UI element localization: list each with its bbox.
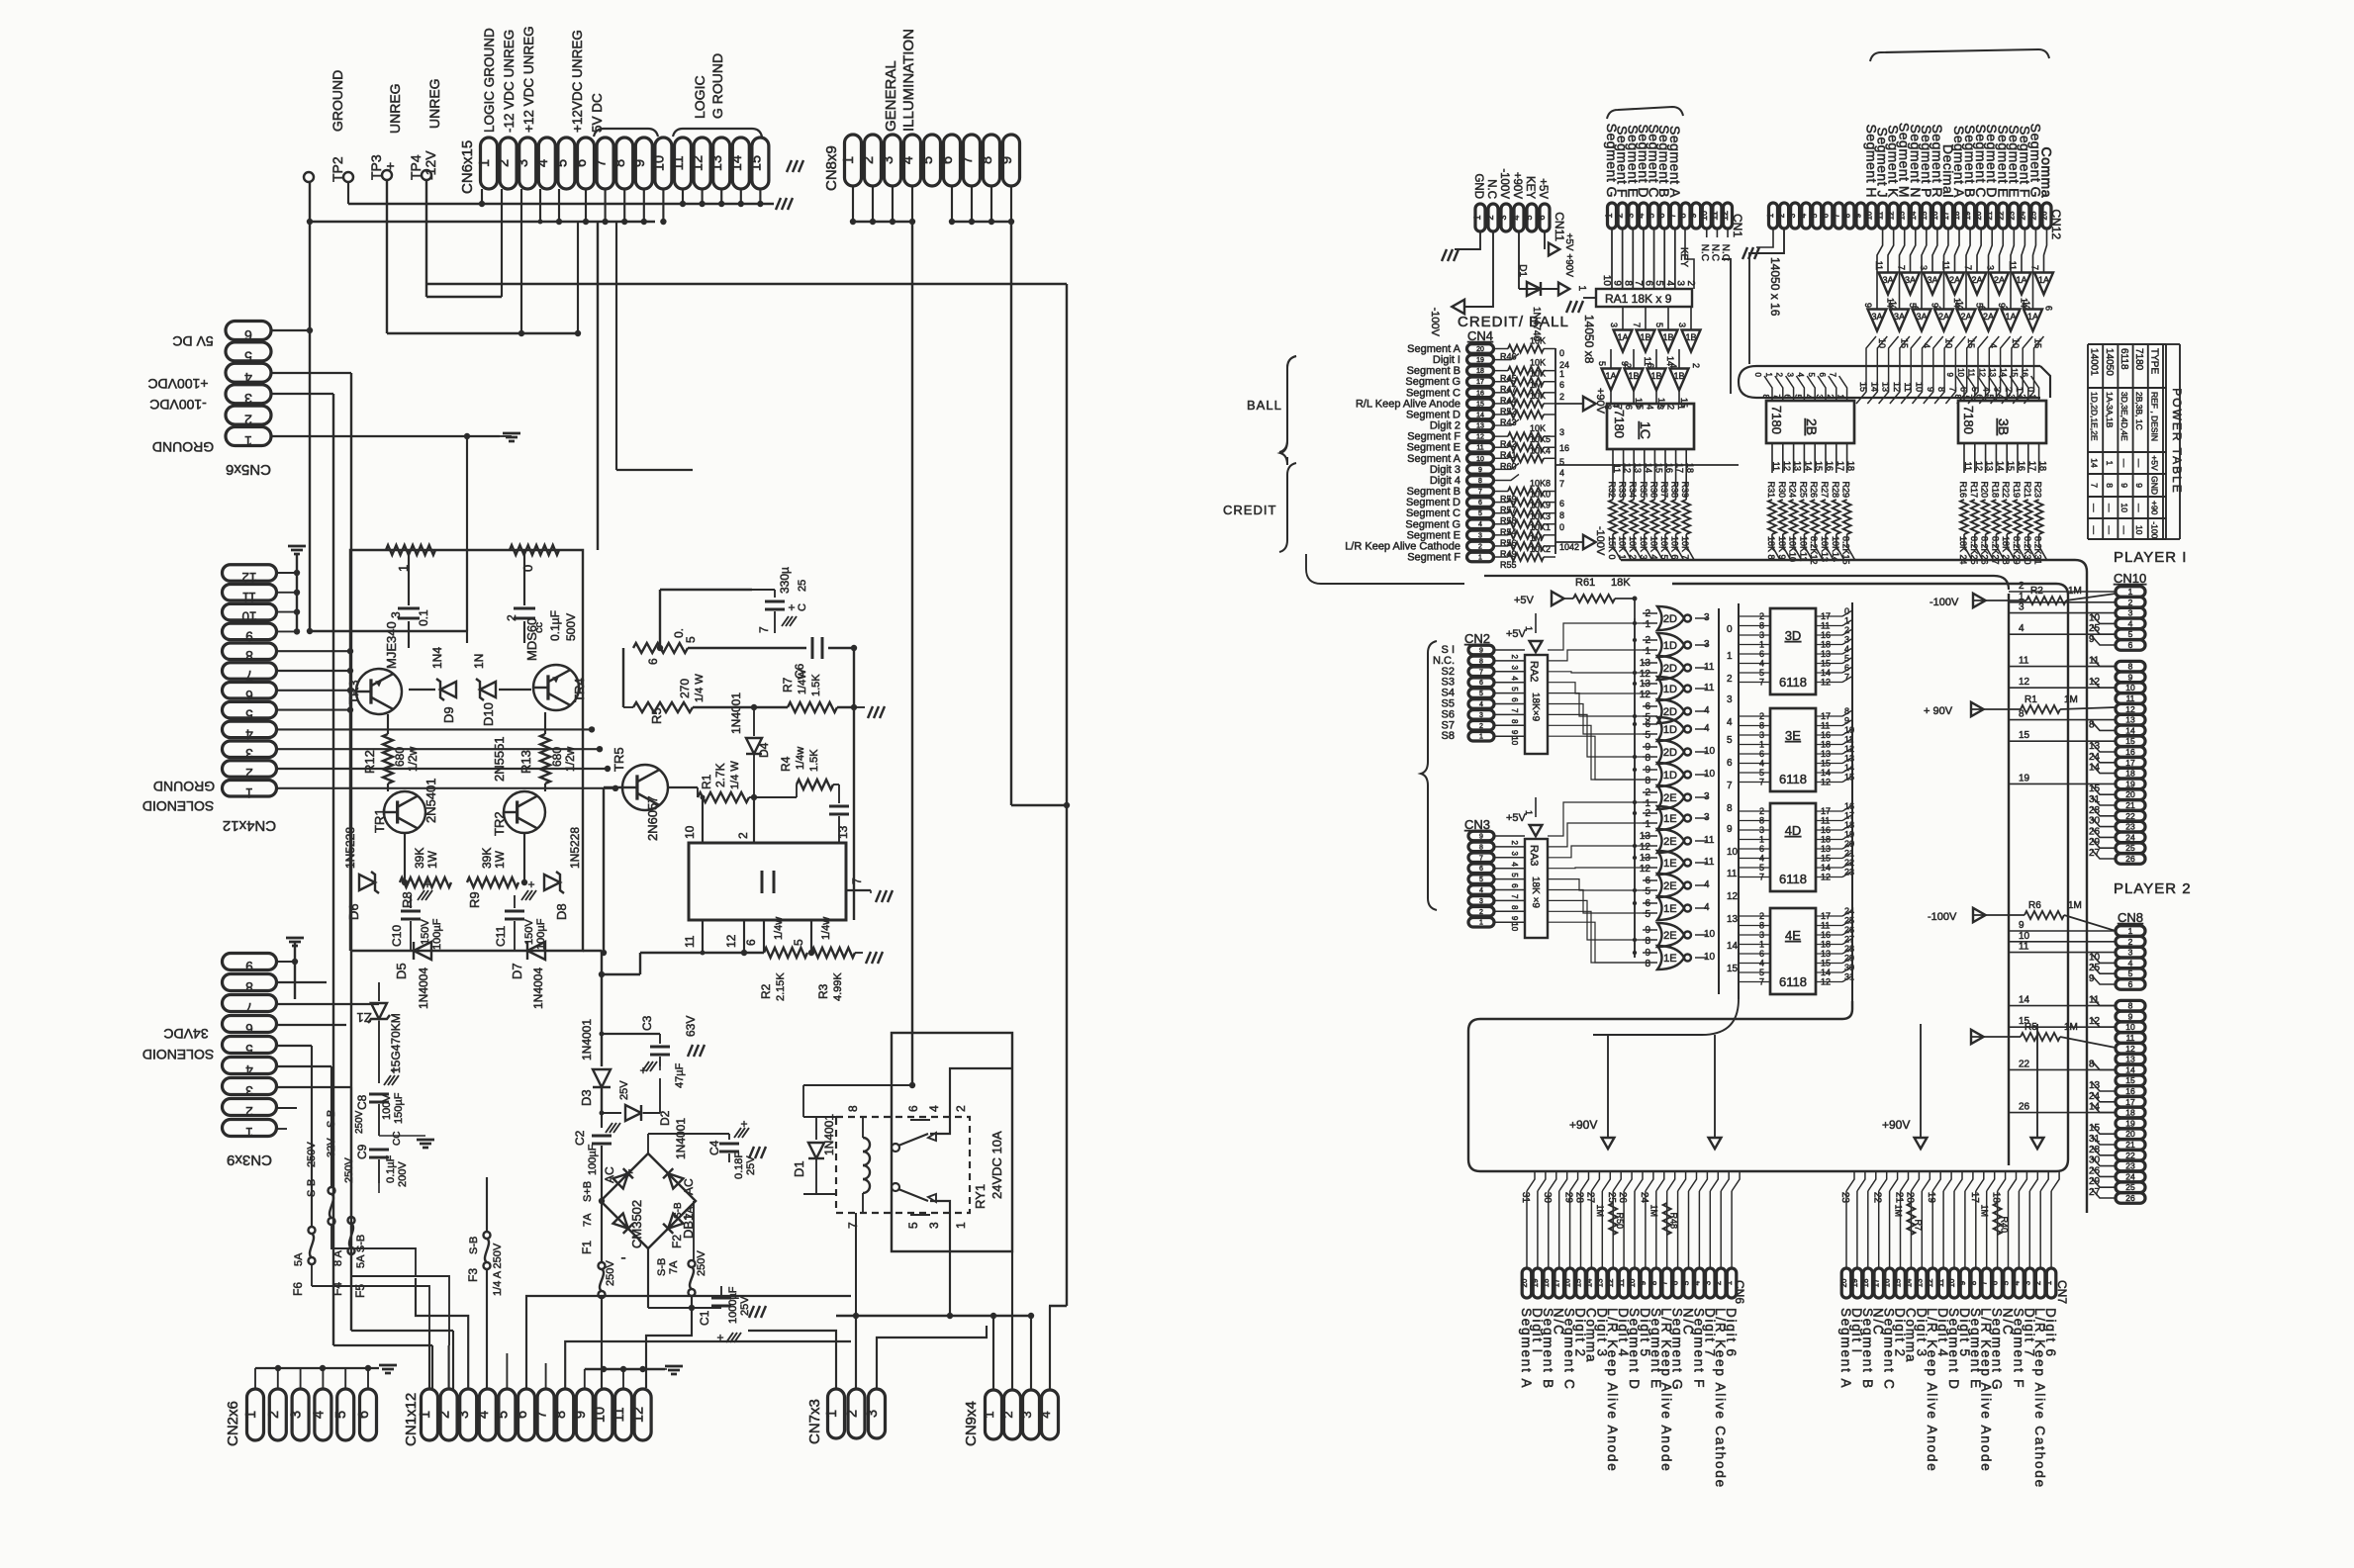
svg-text:15: 15	[2006, 461, 2016, 471]
svg-text:2: 2	[1666, 405, 1676, 410]
wire CN12 pin2 down	[1749, 229, 1784, 364]
svg-text:GROUND: GROUND	[330, 70, 345, 132]
svg-text:3: 3	[1019, 1411, 1034, 1418]
svg-text:2: 2	[954, 1105, 968, 1112]
IC 3B top pins	[1956, 376, 1964, 401]
svg-text:3: 3	[1625, 213, 1635, 218]
connector CN7 bottom	[1841, 1268, 1851, 1298]
svg-text:2B: 2B	[1804, 418, 1820, 435]
svg-text:7: 7	[1772, 395, 1781, 400]
svg-text:4: 4	[311, 1411, 327, 1419]
svg-text:1: 1	[841, 156, 857, 164]
svg-text:1: 1	[1727, 651, 1733, 662]
wire CN8 pins 1-4 bus	[853, 221, 912, 223]
power triangle +5V +90V small	[1544, 231, 1546, 249]
svg-text:16: 16	[1559, 443, 1569, 453]
svg-text:14: 14	[1821, 863, 1831, 873]
svg-text:15: 15	[1858, 382, 1868, 392]
svg-text:+5V: +5V	[1537, 178, 1549, 199]
test point TP4	[422, 170, 431, 180]
svg-text:1N4001: 1N4001	[580, 1019, 594, 1061]
svg-text:14: 14	[1952, 298, 1962, 308]
svg-text:10K: 10K	[1530, 358, 1546, 368]
svg-text:7: 7	[1947, 387, 1957, 392]
svg-text:3: 3	[1919, 265, 1929, 270]
svg-text:5A S-B: 5A S-B	[355, 1235, 367, 1268]
fuse F1 7A 250V	[601, 1201, 603, 1262]
svg-text:11: 11	[1876, 211, 1885, 220]
svg-text:5: 5	[1479, 876, 1483, 883]
svg-text:25: 25	[2125, 843, 2135, 853]
svg-text:14: 14	[1904, 1278, 1913, 1287]
svg-text:8: 8	[1645, 753, 1650, 764]
svg-text:14: 14	[1869, 382, 1879, 392]
svg-text:17: 17	[2125, 758, 2135, 768]
svg-text:3: 3	[1677, 323, 1687, 327]
wire CN6 pin4 pin5 stubs	[539, 189, 541, 222]
zener D9 1N4	[409, 689, 435, 691]
svg-text:25: 25	[2125, 1182, 2135, 1192]
capacitor 0.1 pin3	[408, 550, 410, 605]
svg-text:Z1: Z1	[356, 1010, 371, 1025]
svg-text:19: 19	[1850, 1278, 1859, 1287]
svg-text:7180: 7180	[1961, 406, 1976, 434]
CN4 resistors R46-R55	[1494, 348, 1508, 350]
svg-text:5: 5	[1759, 668, 1764, 678]
svg-text:SOLENOID: SOLENOID	[142, 798, 214, 814]
svg-text:8: 8	[2089, 719, 2095, 730]
svg-text:KEY: KEY	[1678, 247, 1689, 267]
svg-text:4: 4	[1511, 215, 1521, 220]
svg-text:-100VDC: -100VDC	[149, 397, 207, 413]
svg-text:19: 19	[1531, 1278, 1540, 1287]
IC pin 7 with ground	[846, 889, 871, 891]
svg-text:C8: C8	[355, 1094, 369, 1110]
IC pin 13	[834, 842, 839, 844]
svg-text:18: 18	[1821, 835, 1831, 845]
svg-text:2A: 2A	[1983, 312, 1994, 322]
svg-text:5: 5	[792, 939, 805, 946]
svg-text:21: 21	[1894, 1192, 1905, 1204]
svg-text:R19: R19	[2012, 481, 2022, 498]
svg-text:R55: R55	[1500, 560, 1517, 570]
svg-text:1A: 1A	[2016, 275, 2026, 285]
svg-text:10: 10	[1915, 382, 1925, 392]
svg-text:CN1x12: CN1x12	[403, 1393, 420, 1446]
svg-text:17: 17	[1821, 806, 1831, 816]
connector CN1x12	[422, 1389, 438, 1440]
CN8 pin stub numbers	[2092, 954, 2116, 963]
power triangle -100V CN8	[1973, 908, 1986, 922]
svg-text:11: 11	[612, 1407, 627, 1422]
svg-text:1: 1	[1604, 213, 1614, 218]
svg-text:1: 1	[1836, 395, 1845, 400]
svg-text:1A-3A,1B: 1A-3A,1B	[2105, 392, 2115, 428]
svg-text:3A: 3A	[1871, 312, 1882, 322]
svg-text:F6: F6	[291, 1282, 305, 1296]
svg-text:30: 30	[2089, 1155, 2101, 1166]
svg-text:13: 13	[1727, 914, 1739, 925]
CN10 pin stub numbers	[2092, 614, 2116, 623]
svg-text:+: +	[382, 162, 398, 170]
transistor TR4 MDS60	[533, 665, 579, 710]
resistor network RA3 18Kx9	[1525, 839, 1548, 938]
svg-text:4D: 4D	[1785, 823, 1802, 838]
svg-text:500V: 500V	[564, 613, 578, 641]
svg-text:2: 2	[2128, 937, 2133, 947]
svg-text:TP4: TP4	[408, 154, 424, 180]
diode D1 1N4740	[1527, 282, 1541, 296]
svg-text:3: 3	[1815, 395, 1824, 400]
svg-text:CN8x9: CN8x9	[823, 145, 840, 191]
svg-text:1B: 1B	[1662, 332, 1673, 342]
svg-text:11: 11	[1963, 462, 1973, 471]
svg-text:15: 15	[2089, 1123, 2101, 1134]
svg-text:11: 11	[1617, 1278, 1626, 1287]
svg-text:12: 12	[1640, 690, 1651, 700]
svg-text:5: 5	[495, 1411, 511, 1419]
svg-text:+12 VDC UNREG: +12 VDC UNREG	[521, 26, 536, 133]
svg-text:16: 16	[1883, 1278, 1892, 1287]
resistor network RA1 18Kx9	[1596, 289, 1692, 307]
relay contact lower	[892, 1183, 899, 1191]
svg-text:1: 1	[1576, 285, 1587, 291]
svg-text:13: 13	[1821, 649, 1831, 659]
svg-text:1: 1	[1759, 940, 1764, 950]
svg-text:6: 6	[356, 1411, 372, 1419]
svg-text:R7: R7	[781, 677, 795, 692]
svg-text:2: 2	[2018, 395, 2026, 400]
svg-text:TR5: TR5	[612, 747, 626, 772]
svg-text:12: 12	[1720, 211, 1730, 221]
svg-text:5: 5	[1653, 280, 1664, 286]
svg-text:16: 16	[2125, 1086, 2135, 1096]
svg-text:R30: R30	[1777, 481, 1787, 498]
svg-text:15: 15	[2125, 736, 2135, 746]
svg-text:9: 9	[1620, 361, 1630, 366]
svg-text:6: 6	[574, 159, 590, 167]
svg-text:2N5551: 2N5551	[492, 736, 507, 782]
svg-text:9: 9	[632, 159, 648, 167]
svg-text:F1: F1	[580, 1241, 594, 1254]
fuse F5 5A S-B	[348, 1217, 355, 1224]
svg-text:—: —	[2090, 504, 2100, 512]
svg-text:2A: 2A	[1949, 275, 1960, 285]
svg-text:Comma: Comma	[2039, 146, 2055, 198]
svg-text:3: 3	[1510, 851, 1519, 856]
svg-text:20: 20	[2125, 789, 2135, 799]
connector CN11	[1475, 204, 1485, 231]
svg-text:1: 1	[1524, 626, 1534, 631]
svg-text:1M: 1M	[1649, 1204, 1659, 1217]
svg-text:4: 4	[1759, 659, 1764, 669]
svg-text:REF , DESIN: REF , DESIN	[2149, 392, 2159, 441]
svg-text:3: 3	[245, 746, 253, 761]
svg-text:6: 6	[1759, 649, 1764, 659]
svg-text:13: 13	[1595, 1278, 1604, 1287]
svg-text:GND: GND	[1472, 173, 1484, 199]
svg-text:3: 3	[1609, 323, 1619, 327]
svg-text:7: 7	[1727, 781, 1733, 791]
svg-text:1: 1	[477, 159, 493, 167]
svg-text:17: 17	[2027, 461, 2037, 471]
wire x472 down to TP2 horizontal	[466, 436, 468, 631]
svg-text:8: 8	[1510, 719, 1519, 724]
svg-text:10: 10	[592, 1407, 608, 1423]
svg-text:22: 22	[1996, 211, 2005, 220]
svg-text:1N4004: 1N4004	[417, 968, 430, 1009]
connector CN4x12	[223, 565, 277, 582]
svg-text:6: 6	[1510, 883, 1519, 888]
svg-text:D9: D9	[441, 706, 456, 723]
svg-text:14: 14	[2125, 1064, 2135, 1074]
svg-text:250V: 250V	[306, 1142, 318, 1167]
svg-text:16: 16	[2125, 747, 2135, 757]
svg-text:2N6057: 2N6057	[645, 795, 660, 841]
svg-text:7: 7	[1559, 479, 1564, 489]
wire +12 rail x623 down	[615, 222, 617, 470]
svg-text:12: 12	[1782, 461, 1792, 471]
svg-text:4: 4	[2012, 1280, 2021, 1285]
connector CN6x15	[481, 138, 498, 189]
svg-text:100µF: 100µF	[431, 918, 443, 950]
svg-text:5: 5	[1645, 886, 1650, 897]
svg-text:8: 8	[1759, 721, 1764, 731]
earth ground near CN5 pin1	[503, 432, 520, 435]
svg-text:8: 8	[1645, 776, 1650, 786]
wire TP4 to CN6 pin2	[425, 180, 427, 297]
regulator IC box	[689, 843, 846, 920]
svg-text:9: 9	[2019, 920, 2024, 931]
svg-text:2: 2	[497, 159, 513, 167]
svg-text:—: —	[2134, 504, 2144, 512]
svg-text:S-B: S-B	[656, 1258, 668, 1276]
svg-text:8: 8	[1761, 395, 1770, 400]
svg-text:4: 4	[2128, 618, 2133, 628]
svg-text:5: 5	[1524, 215, 1534, 220]
svg-text:1: 1	[1645, 646, 1650, 657]
bracket over CN12 labels	[1870, 49, 2049, 61]
svg-text:8: 8	[1559, 510, 1564, 520]
wire CN1 KEY pin	[1685, 229, 1694, 289]
svg-text:1W: 1W	[493, 850, 507, 869]
svg-text:330µ: 330µ	[778, 567, 792, 594]
svg-text:10: 10	[683, 825, 697, 839]
svg-text:2: 2	[1759, 911, 1764, 921]
svg-text:AC: AC	[682, 1178, 696, 1195]
svg-text:680: 680	[550, 747, 564, 767]
svg-text:1: 1	[245, 785, 253, 800]
svg-text:3: 3	[1674, 280, 1685, 286]
svg-text:2D: 2D	[1663, 663, 1677, 675]
svg-text:4: 4	[476, 1411, 492, 1419]
svg-text:8: 8	[1622, 280, 1633, 286]
svg-text:7: 7	[1479, 669, 1483, 676]
wire CN6 pin1 stub	[481, 189, 483, 204]
svg-text:UNREG: UNREG	[426, 78, 442, 129]
svg-text:9: 9	[1863, 303, 1873, 308]
svg-text:D2: D2	[658, 1110, 672, 1126]
IC 3B bottom pins and resistors R16-R23	[1963, 443, 1965, 473]
svg-text:+: +	[716, 1331, 723, 1344]
svg-text:R23: R23	[2033, 481, 2043, 498]
svg-text:3: 3	[1844, 635, 1849, 645]
resistor R7 1M	[1907, 1203, 1915, 1235]
svg-text:12: 12	[1821, 977, 1831, 987]
svg-text:cc: cc	[533, 622, 545, 634]
svg-text:1: 1	[1725, 1280, 1734, 1285]
svg-text:10: 10	[1510, 736, 1519, 745]
svg-text:18: 18	[1846, 461, 1856, 471]
svg-text:12: 12	[1892, 382, 1902, 392]
svg-text:2: 2	[2004, 387, 2014, 392]
svg-text:1A: 1A	[2005, 312, 2016, 322]
svg-text:1: 1	[1559, 369, 1564, 379]
wire bus y224	[310, 221, 655, 223]
svg-text:18: 18	[1952, 211, 1961, 220]
wire CN5 pin3 rail	[271, 393, 333, 395]
svg-text:4: 4	[1645, 405, 1654, 410]
svg-text:1/2w: 1/2w	[406, 746, 420, 772]
svg-text:13: 13	[836, 825, 850, 839]
svg-text:24: 24	[2125, 1171, 2135, 1181]
svg-text:5: 5	[1844, 654, 1849, 664]
-100V triangle CN4	[1555, 541, 1583, 543]
svg-text:1: 1	[245, 1125, 253, 1140]
IC 2B top pins	[1764, 376, 1772, 401]
svg-text:2: 2	[1714, 1280, 1723, 1285]
svg-text:6: 6	[1821, 213, 1830, 218]
svg-text:R48: R48	[1669, 1212, 1679, 1229]
svg-text:6: 6	[1479, 680, 1483, 687]
svg-text:8: 8	[1677, 213, 1687, 218]
svg-text:D7: D7	[510, 963, 524, 979]
svg-text:8: 8	[1842, 213, 1851, 218]
svg-text:7: 7	[245, 1000, 253, 1015]
svg-text:5: 5	[245, 707, 253, 722]
svg-text:GENERAL: GENERAL	[883, 60, 899, 132]
svg-text:5: 5	[1985, 395, 1994, 400]
svg-text:30: 30	[1542, 1192, 1553, 1204]
svg-text:19: 19	[1476, 357, 1484, 364]
svg-text:10K4: 10K4	[1530, 445, 1551, 455]
svg-text:5: 5	[1479, 691, 1483, 697]
svg-text:CC: CC	[392, 1132, 403, 1146]
diode D1 1N4001	[815, 1117, 817, 1140]
resistor R7 1/4W 1.5K	[788, 702, 837, 712]
svg-text:+5V: +5V	[1506, 812, 1527, 824]
svg-text:24VDC 10A: 24VDC 10A	[989, 1131, 1004, 1199]
svg-text:16: 16	[1821, 730, 1831, 740]
svg-text:1E: 1E	[1663, 903, 1676, 915]
svg-text:R27: R27	[1820, 481, 1830, 498]
wire bus logic ground y206	[348, 203, 774, 205]
svg-text:1000µF: 1000µF	[727, 1286, 739, 1324]
wires buffers to bus with numbers	[1856, 336, 1876, 404]
svg-text:31: 31	[2089, 794, 2101, 805]
svg-text:25: 25	[797, 580, 808, 592]
svg-text:4: 4	[245, 726, 253, 741]
svg-text:2D: 2D	[1663, 613, 1677, 625]
resistor R61 18K	[1552, 592, 1564, 605]
svg-text:21: 21	[2125, 800, 2135, 810]
svg-text:23: 23	[2125, 822, 2135, 832]
connector CN3 display	[1468, 831, 1494, 841]
svg-text:10K2: 10K2	[1530, 544, 1551, 554]
buffer row B under RA1	[1602, 369, 1621, 391]
svg-text:2: 2	[437, 1411, 453, 1419]
svg-text:23: 23	[1839, 1192, 1850, 1204]
svg-text:5: 5	[1478, 510, 1482, 517]
svg-text:13: 13	[709, 155, 725, 171]
wire CN4 block bus to players	[1484, 576, 2009, 590]
svg-text:4: 4	[1479, 701, 1483, 708]
svg-text:22: 22	[2125, 811, 2135, 821]
svg-text:26: 26	[2125, 1193, 2135, 1203]
svg-text:1E: 1E	[1663, 953, 1676, 965]
svg-text:R38: R38	[1670, 481, 1680, 498]
svg-text:R37: R37	[1659, 481, 1669, 498]
svg-text:8: 8	[1478, 478, 1482, 485]
svg-text:16: 16	[2017, 461, 2026, 471]
ground chassis left of CN8	[787, 160, 792, 172]
svg-text:12: 12	[1821, 778, 1831, 787]
svg-text:18K 8: 18K 8	[1766, 536, 1776, 560]
buffer row A under RA1	[1614, 330, 1633, 352]
svg-text:12: 12	[1977, 368, 1986, 377]
svg-text:7: 7	[1759, 678, 1764, 688]
buffer rows under CN12	[1879, 273, 1898, 295]
svg-text:8: 8	[553, 1411, 569, 1419]
svg-text:25V: 25V	[618, 1080, 630, 1100]
svg-text:3: 3	[245, 1083, 253, 1098]
svg-text:12: 12	[724, 934, 738, 948]
svg-text:2E: 2E	[1663, 836, 1676, 848]
wires CN2 to RA2	[1494, 649, 1525, 651]
svg-text:11: 11	[1967, 369, 1976, 378]
svg-text:—: —	[2119, 526, 2129, 535]
svg-text:R25: R25	[1798, 481, 1808, 498]
svg-text:N.C: N.C	[1485, 179, 1497, 199]
svg-text:1: 1	[1759, 740, 1764, 750]
svg-text:2: 2	[1485, 215, 1495, 220]
svg-text:20: 20	[2125, 1129, 2135, 1139]
svg-text:10: 10	[2119, 503, 2129, 512]
svg-text:4: 4	[1759, 854, 1764, 864]
svg-text:1B: 1B	[1628, 371, 1639, 381]
svg-text:5: 5	[1597, 361, 1607, 366]
svg-text:11: 11	[2126, 1033, 2135, 1043]
svg-text:7: 7	[245, 668, 253, 683]
svg-text:7: 7	[1832, 213, 1840, 218]
svg-text:4.99K: 4.99K	[832, 972, 844, 1001]
resistor R13 680 1/2w	[544, 712, 546, 734]
svg-text:9: 9	[2128, 1011, 2133, 1021]
gate input ladder	[1634, 618, 1636, 958]
svg-text:3D,3E,4D,4E: 3D,3E,4D,4E	[2119, 392, 2129, 441]
resistor R40 1M	[1994, 1203, 2002, 1235]
svg-text:150µF: 150µF	[393, 1092, 405, 1124]
svg-text:9: 9	[1945, 373, 1954, 378]
svg-text:9: 9	[573, 1411, 589, 1419]
svg-text:5: 5	[1645, 909, 1650, 920]
bottom route to CN6 CN7 fan	[1468, 1001, 2056, 1171]
wire CN1x12 risers	[428, 1331, 430, 1389]
svg-text:1N4: 1N4	[430, 647, 444, 669]
wires CN9x4	[992, 1316, 994, 1389]
svg-text:3: 3	[1986, 265, 1996, 270]
svg-text:R40: R40	[2000, 1216, 2010, 1233]
